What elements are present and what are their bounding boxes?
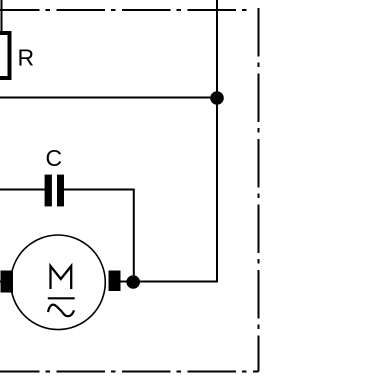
svg-text:C: C <box>46 145 63 171</box>
wire horizontal from motor terminal to vertical wire <box>120 281 218 283</box>
wire vertical from top edge to node junction <box>216 0 218 98</box>
motor M circle <box>11 235 106 330</box>
enclosure boundary bottom (dash-dot) <box>0 371 259 373</box>
junction dot node 1 <box>210 91 224 105</box>
resistor R <box>0 33 10 78</box>
junction dot node 2 <box>126 275 140 289</box>
motor right terminal brush <box>109 271 121 292</box>
wire vertical from node 1 down to motor line <box>216 98 218 282</box>
wire from top edge to resistor R <box>1 0 3 33</box>
motor AC tilde <box>48 305 74 317</box>
wire stub at left edge to motor terminal <box>0 281 2 283</box>
enclosure boundary top (dash-dot) <box>0 9 252 11</box>
motor left terminal brush <box>1 271 14 293</box>
capacitor C left plate <box>45 175 52 207</box>
capacitor C right plate <box>57 175 64 207</box>
enclosure boundary right (dash-dot) <box>258 8 260 372</box>
wire from capacitor corner down to node 2 <box>0 190 134 283</box>
motor divider bar <box>48 297 75 299</box>
svg-text:R: R <box>18 45 35 71</box>
wire horizontal below resistor <box>0 97 217 99</box>
motor letter M <box>51 266 72 289</box>
